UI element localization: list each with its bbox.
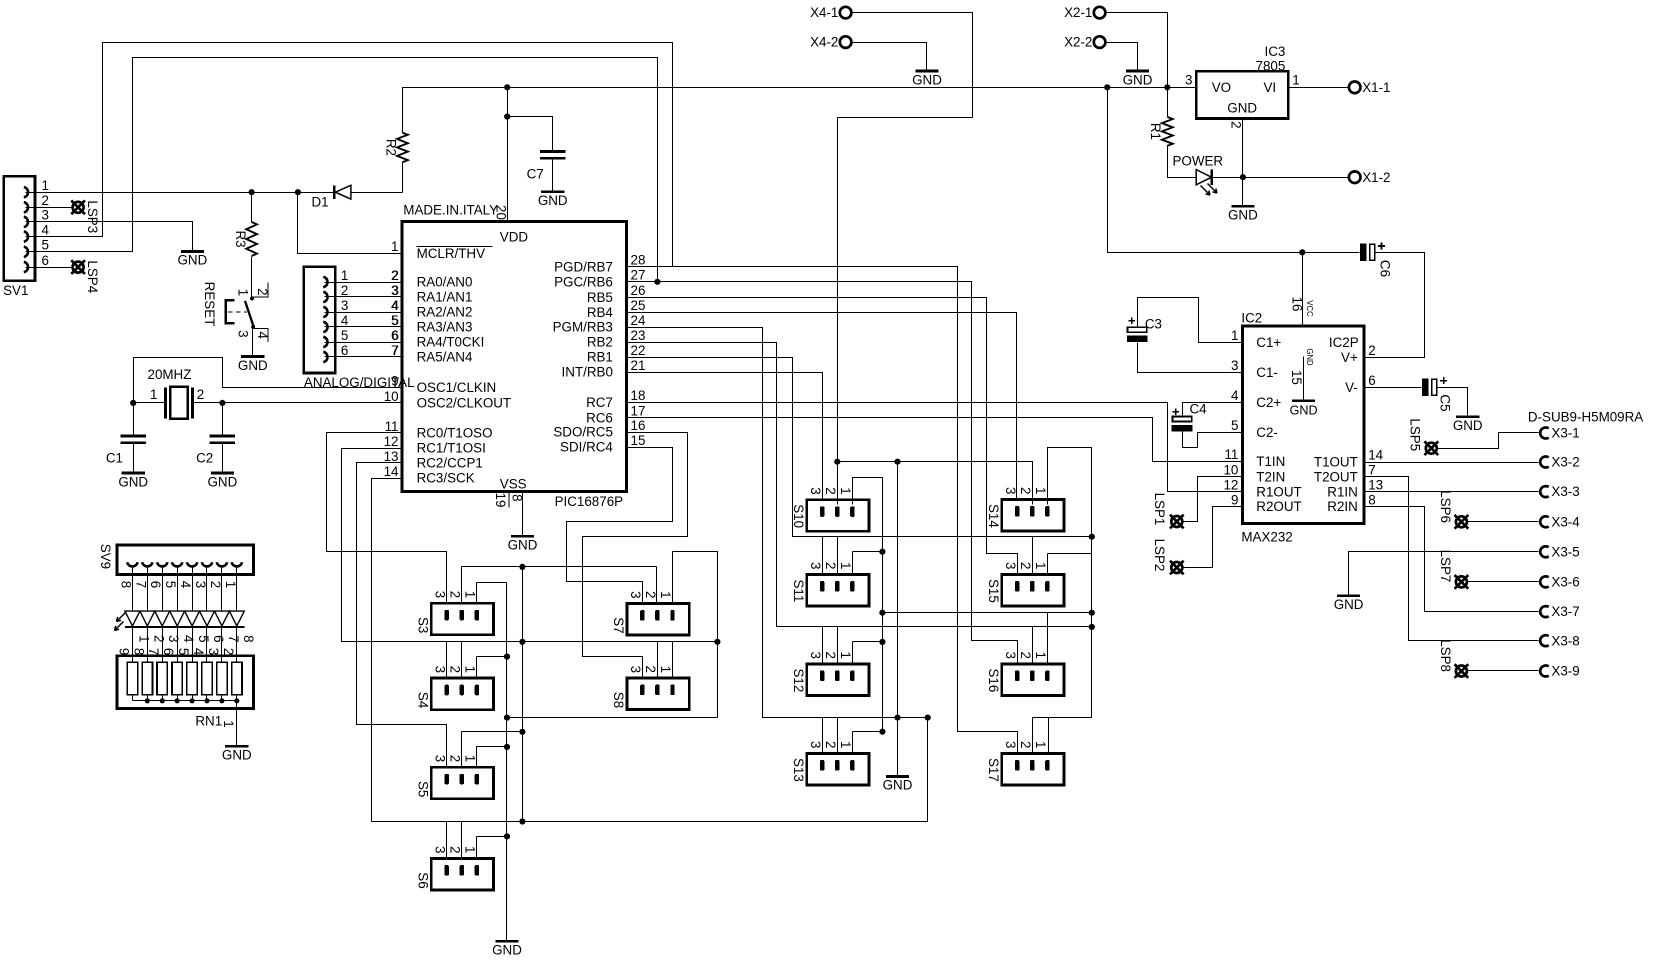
svg-text:VSS: VSS [500,477,527,492]
svg-text:2: 2 [448,591,463,598]
svg-text:4: 4 [391,298,399,313]
capacitor C2 [222,403,224,436]
wire S6 pin2 drop [461,822,463,859]
wire C5 to GND [1438,388,1468,417]
junction x507 y746.9 [504,744,510,750]
svg-text:23: 23 [631,328,646,343]
svg-text:S11: S11 [791,579,806,602]
wire S12 pin3 drop [822,627,824,664]
wire VDD pin20 [507,88,509,222]
wire OSC1 net [134,358,403,403]
svg-text:LSP3: LSP3 [85,200,100,233]
wire S15 pin1 branch [1047,554,1049,575]
ground GND (C2) [211,472,234,475]
regulator IC3 7805 [1196,71,1288,118]
svg-text:T1IN: T1IN [1256,454,1285,469]
svg-text:PGC/RB6: PGC/RB6 [554,274,613,289]
svg-text:S12: S12 [791,668,806,692]
LED D5 [170,611,185,626]
svg-text:18: 18 [631,388,646,403]
pad X2-2 [1094,36,1106,48]
wire S4 pin3 drop [446,642,448,679]
svg-text:1: 1 [658,591,673,598]
LED array anode wires [132,568,134,612]
solder pad LSP8 [1456,666,1467,677]
crystal Q1 20MHZ [164,387,167,418]
connector S7 [627,604,689,636]
svg-text:1: 1 [838,651,853,658]
svg-text:C2: C2 [196,450,213,465]
svg-text:3: 3 [1003,741,1018,748]
svg-text:VI: VI [1264,80,1277,95]
svg-text:GND: GND [508,538,538,553]
wire RN1 to GND [236,701,238,747]
svg-text:C1-: C1- [1256,365,1278,380]
svg-text:1: 1 [136,635,151,642]
LED D8 [215,611,230,626]
svg-text:15: 15 [631,433,646,448]
ground GND (IC3) [1231,205,1254,208]
junction H_a right [1089,610,1095,616]
wire S8 pin1 drop [672,642,674,679]
svg-text:OSC1/CLKIN: OSC1/CLKIN [417,380,497,395]
junction at IC2 VCC [1299,249,1305,255]
svg-text:RB4: RB4 [587,305,614,320]
svg-text:LSP4: LSP4 [85,260,100,293]
svg-text:GND: GND [1305,348,1314,366]
svg-text:VCC: VCC [1305,300,1314,317]
junction x522 y731.8 [519,729,525,735]
svg-text:12: 12 [384,434,399,449]
pad X3-1 [1540,427,1549,438]
svg-text:21: 21 [631,358,646,373]
pad X1-2 [1349,171,1361,183]
svg-text:15: 15 [1289,370,1304,385]
svg-text:RN1: RN1 [195,713,222,728]
wire S10 pin1 jog [853,478,883,732]
solder pad LSP1 [1171,516,1182,527]
svg-text:MAX232: MAX232 [1241,530,1292,545]
svg-text:5: 5 [42,238,49,253]
wire T2OUT to X3-8 [1364,477,1539,641]
svg-text:2: 2 [643,666,658,673]
svg-text:2: 2 [1228,121,1243,128]
ground GND (S bus) [495,940,518,943]
wire RB5 (26) to S15 pin3 [627,298,1018,575]
svg-text:14: 14 [1368,448,1383,463]
svg-text:RC7: RC7 [586,395,613,410]
svg-text:2: 2 [448,755,463,762]
svg-text:C2-: C2- [1256,425,1278,440]
svg-text:GND: GND [222,748,252,763]
IC U1 PIC16876P [402,222,627,492]
wire S4 pin1 branch [476,657,478,679]
wire R1 to LED [1168,146,1197,178]
svg-text:13: 13 [1368,478,1383,493]
junction y717.6 GND branch [894,715,900,721]
svg-text:2: 2 [823,562,838,569]
svg-text:GND: GND [883,778,913,793]
svg-text:6: 6 [148,581,163,588]
svg-text:X1-1: X1-1 [1362,80,1390,95]
resistor R3 [246,222,257,256]
svg-text:X4-2: X4-2 [810,35,838,50]
connector S16 [1002,664,1064,696]
wire H_a [883,612,1092,614]
svg-text:2: 2 [1018,562,1033,569]
svg-text:R2: R2 [383,139,398,156]
connector SV1 [4,176,35,281]
junction on SV1-1 at R3 [249,189,255,195]
svg-text:1: 1 [463,755,478,762]
svg-text:C1+: C1+ [1256,335,1281,350]
svg-text:RC0/T1OSO: RC0/T1OSO [417,426,493,441]
connector SV9 [117,545,254,575]
svg-text:X1-2: X1-2 [1362,170,1390,185]
svg-text:7: 7 [226,635,241,642]
wire RC3 to S6 rail [372,479,928,822]
junction PGC at SV1-5 riser [654,279,660,285]
wire S8 pin2 drop [657,642,659,679]
wire RC1 to S4 bus [342,449,718,642]
junction x897 rail [894,459,900,465]
junction H_a left [879,610,885,616]
wire X4 rail to S10/S14 pin2 [838,462,1033,505]
connector S4 [431,678,493,710]
wire S10 pin2 drop [837,462,839,505]
svg-text:R1OUT: R1OUT [1256,484,1301,499]
svg-text:GND: GND [1453,418,1483,433]
wire VI to X1-1 [1289,87,1349,89]
svg-text:3: 3 [628,666,643,673]
svg-text:LSP6: LSP6 [1438,490,1453,523]
svg-text:4: 4 [178,581,193,589]
wire MCLR to PIC pin1 [298,193,403,254]
svg-text:S5: S5 [415,781,430,797]
svg-text:5: 5 [176,648,191,655]
wire LSP6 to X3-4 [1468,521,1539,523]
pad X3-5 [1540,546,1549,557]
connector S5 [431,767,493,799]
svg-text:11: 11 [1224,447,1238,462]
svg-text:S16: S16 [986,668,1001,692]
wire S11 pin1 branch [852,552,854,575]
junction x507 y717.6 [504,715,510,721]
svg-text:1: 1 [658,666,673,673]
svg-text:1: 1 [223,581,238,588]
svg-text:3: 3 [1003,487,1018,494]
wire SV1-1 net MCLR [26,192,335,194]
pad X2-1 [1094,7,1106,19]
wire C3 to C1+ [1138,298,1243,343]
LED D6 [185,611,200,626]
junction x507 y656.6 [504,654,510,660]
wire S12 pin1 branch [852,642,854,664]
svg-text:X3-4: X3-4 [1551,514,1580,529]
wire RC6 to T1IN [627,418,1243,462]
capacitor C6 [1360,244,1367,262]
ground GND (RESET) [241,355,264,358]
svg-text:IC2P: IC2P [1329,335,1359,350]
ground GND (C7) [541,190,564,193]
wire C7 branch [508,117,553,152]
svg-text:3: 3 [1185,73,1192,88]
svg-text:1: 1 [1033,651,1048,658]
svg-text:8: 8 [241,635,256,642]
svg-text:2: 2 [197,387,204,402]
svg-text:C2+: C2+ [1256,395,1281,410]
wire X4-1 down to servo rail [838,13,973,462]
solder pad LSP6 [1456,516,1467,527]
wire crystal pin2 / OSC2 net [193,402,403,404]
svg-text:RA4/T0CKI: RA4/T0CKI [417,335,485,350]
svg-text:GND: GND [1227,101,1257,116]
svg-text:V+: V+ [1341,350,1358,365]
svg-text:6: 6 [211,635,226,642]
svg-text:5: 5 [163,581,178,588]
wire R2IN to X3-7 [1364,507,1539,612]
wire ANALOG pin5 [325,342,403,344]
wire C3 to C1- [1138,343,1243,373]
capacitor C7 [540,150,566,153]
svg-text:24: 24 [631,313,646,328]
svg-text:1: 1 [1231,328,1238,343]
svg-text:C6: C6 [1378,260,1393,277]
diode D1 [333,186,335,199]
svg-text:2: 2 [391,268,398,283]
wire LSP5 to X3-1 [1438,433,1539,449]
svg-text:2: 2 [1018,651,1033,658]
svg-text:SDI/RC4: SDI/RC4 [560,440,613,455]
solder pad LSP4 [73,262,84,273]
junction S10 pin2 [834,459,840,465]
wire S3 pin2 to S7 pin2 [461,567,463,604]
svg-text:1: 1 [838,741,853,748]
svg-text:1: 1 [463,591,478,598]
svg-text:X2-2: X2-2 [1064,35,1092,50]
svg-text:4: 4 [341,313,349,328]
wire LED to X1-2 [1212,177,1349,179]
junction X1-2/LED/GND [1240,174,1246,180]
LED POWER [1196,170,1211,185]
wire S17 pin1/pin2 route [1033,717,1092,719]
connector S8 [627,678,689,710]
wire R3 to switch [251,257,253,299]
svg-text:RB1: RB1 [587,350,613,365]
capacitor C5 [1422,378,1429,396]
wire S15 pin2 drop [1032,537,1034,575]
svg-text:GND: GND [538,193,568,208]
svg-text:6: 6 [161,648,176,655]
svg-text:3: 3 [391,283,398,298]
wire R1IN to X3-3 [1364,491,1539,493]
svg-text:2: 2 [221,648,236,655]
wire y717.6 to S7/S8 corner [507,717,718,719]
svg-text:3: 3 [1003,562,1018,569]
svg-text:C1: C1 [106,450,123,465]
svg-text:14: 14 [384,464,399,479]
RN1 common bus [133,700,237,702]
svg-text:6: 6 [341,343,348,358]
svg-text:3: 3 [42,208,49,223]
svg-text:GND: GND [178,253,208,268]
svg-text:2: 2 [151,635,166,642]
LED D7 [200,611,215,626]
LED D3 [140,611,155,626]
svg-text:7: 7 [391,343,398,358]
pad X3-4 [1540,516,1549,527]
svg-text:S17: S17 [986,758,1001,782]
wire switch to GND [252,327,254,357]
pad X4-2 [840,36,852,48]
wire IC2 VCC pin16 [1302,253,1304,326]
wire C4 to C2+ [1183,403,1243,417]
pad X1-1 [1349,82,1361,94]
svg-text:3: 3 [808,487,823,494]
svg-text:19: 19 [493,493,508,508]
svg-text:3: 3 [432,591,447,598]
svg-text:SDO/RC5: SDO/RC5 [553,425,613,440]
ground GND (X3-5) [1337,594,1360,597]
wire S11 pin3 drop [822,537,824,575]
svg-text:GND: GND [1228,208,1258,223]
pad X3-9 [1540,666,1549,677]
wire PGC (27) to S16 pin3 [627,282,1018,664]
svg-text:S8: S8 [611,692,626,708]
ground GND (S13 area) [886,775,909,778]
ground GND (C5) [1456,415,1479,418]
svg-text:9: 9 [1231,492,1238,507]
svg-text:2: 2 [1018,741,1033,748]
svg-text:2: 2 [823,651,838,658]
svg-text:X3-8: X3-8 [1551,633,1579,648]
svg-text:2: 2 [1018,487,1033,494]
wire SV1-4 to PGD/RB7 (pin28) [26,43,673,267]
svg-text:13: 13 [384,449,399,464]
svg-text:1: 1 [236,289,251,296]
svg-text:11: 11 [385,419,399,434]
wire D1 to R2 [402,163,404,193]
svg-text:C3: C3 [1145,317,1162,332]
svg-text:S10: S10 [791,504,806,528]
svg-text:27: 27 [631,268,646,283]
wire crystal pin1 [134,402,166,404]
svg-text:RA1/AN1: RA1/AN1 [417,290,473,305]
svg-text:SV1: SV1 [3,283,28,298]
wire VSS to GND [522,492,524,537]
ground GND (RN1) [225,745,248,748]
wire S12 pin2 drop [837,627,839,664]
svg-text:RA3/AN3: RA3/AN3 [417,320,473,335]
svg-text:C5: C5 [1437,394,1452,411]
connector S11 [807,574,869,606]
junction crystal pin2 [219,400,225,406]
svg-text:3: 3 [808,741,823,748]
svg-text:1: 1 [1292,73,1299,88]
wire SV1-5 to PGC/RB6 (pin27) [26,58,658,282]
connector S15 [1002,574,1064,606]
svg-text:7: 7 [1368,463,1375,478]
svg-text:3: 3 [341,298,348,313]
svg-text:GND: GND [492,943,522,958]
svg-text:3: 3 [166,635,181,642]
wire S5 pin1 branch [476,747,478,768]
svg-text:1: 1 [42,178,49,193]
capacitor C4 [1173,417,1192,422]
wire S13 pin3 drop [822,718,824,754]
LED D2 [125,611,140,626]
svg-text:1: 1 [1033,741,1048,748]
svg-text:GND: GND [118,474,148,489]
wire ANALOG pin6 [325,356,403,358]
wire +5V rail [508,87,1197,89]
wire S11 pin2 drop [837,537,839,575]
svg-text:7805: 7805 [1256,58,1286,73]
svg-text:1: 1 [1033,562,1048,569]
svg-text:PGM/RB3: PGM/RB3 [553,320,613,335]
svg-text:S13: S13 [791,758,806,782]
overline MCLR [417,245,493,247]
wire R1 top [1167,88,1169,117]
svg-text:RA5/AN4: RA5/AN4 [417,350,473,365]
svg-text:S4: S4 [415,692,430,709]
capacitor C1 [133,403,135,436]
pad X3-6 [1540,576,1549,587]
wire C6 to V+ [1364,253,1425,358]
svg-text:2: 2 [208,581,223,588]
svg-text:S6: S6 [415,872,430,888]
svg-text:2: 2 [42,193,49,208]
connector S13 [807,753,869,785]
wire S5 pin2 branch [461,732,463,768]
svg-text:X3-2: X3-2 [1551,455,1579,470]
wire PGM/RB3 (24) down [627,328,928,718]
svg-text:26: 26 [631,283,646,298]
svg-text:2: 2 [448,666,463,673]
svg-text:GND: GND [208,474,238,489]
wire S13 pin2 drop [837,718,839,754]
svg-text:OSC2/CLKOUT: OSC2/CLKOUT [417,396,512,411]
resistor network RN1 [117,656,254,709]
svg-text:1: 1 [221,720,236,727]
svg-text:RC6: RC6 [586,410,613,425]
svg-text:R1: R1 [1148,123,1163,140]
svg-text:5: 5 [391,313,398,328]
wire GND to X3-5 [1349,552,1539,596]
wire SV1-6 to LSP4 [26,267,72,269]
svg-text:GND: GND [238,358,268,373]
junction end y641.8 [714,639,720,645]
wire T2IN to LSP1 [1184,477,1243,522]
svg-text:5: 5 [196,635,211,642]
svg-text:R1IN: R1IN [1327,484,1358,499]
svg-text:2: 2 [448,846,463,853]
svg-text:3: 3 [193,581,208,588]
svg-text:X3-5: X3-5 [1551,544,1579,559]
svg-text:GND: GND [1290,404,1318,418]
pad X3-7 [1540,606,1549,617]
junction y717.6 RC3 rail [925,715,931,721]
wire C4 to C2- [1183,432,1243,448]
connector S17 [1002,753,1064,785]
ground GND (C1) [122,472,145,475]
capacitor C3 [1128,327,1147,332]
svg-text:LSP8: LSP8 [1438,639,1453,672]
svg-text:R2OUT: R2OUT [1256,499,1301,514]
svg-text:C7: C7 [527,167,544,182]
svg-text:1: 1 [150,387,157,402]
svg-text:7: 7 [146,648,161,655]
